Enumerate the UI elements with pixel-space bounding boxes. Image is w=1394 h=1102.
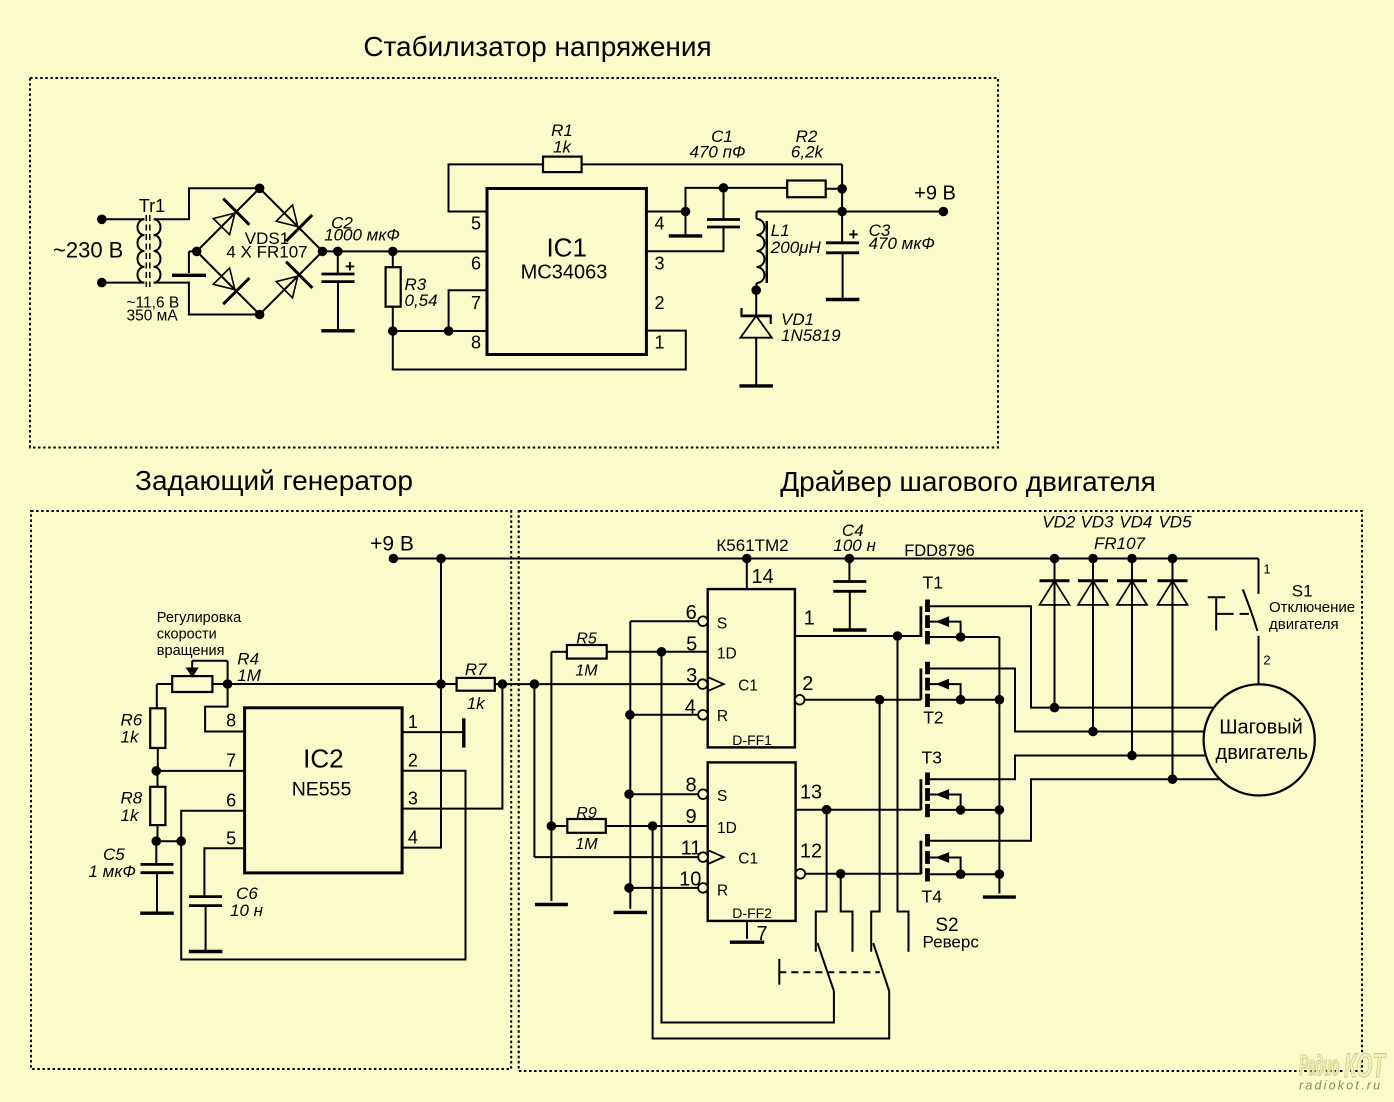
wire L1 top / +9V	[757, 211, 944, 213]
wire source column	[998, 637, 1000, 894]
switch S2 contact T2net	[871, 700, 879, 952]
node R9 left	[547, 821, 557, 831]
watermark РадиоКОТ	[1299, 1047, 1387, 1085]
svg-text:+9 В: +9 В	[914, 183, 956, 205]
capacitor C4	[848, 559, 850, 582]
capacitor C3	[841, 212, 843, 243]
svg-text:S: S	[717, 616, 727, 633]
pin 9 wire (1D)	[606, 825, 708, 827]
diode VD5	[1168, 554, 1178, 564]
wire +9V drop to R7 rail	[440, 559, 442, 685]
wire pin7 branch	[449, 290, 487, 331]
terminal +9V oscillator	[389, 554, 399, 564]
wire R4 to R7	[212, 683, 456, 685]
node T2 body	[956, 695, 966, 705]
capacitor C6	[189, 895, 222, 898]
svg-text:1D: 1D	[717, 646, 737, 663]
pin 11 bubble	[698, 852, 708, 862]
ground S/R chain	[614, 911, 647, 914]
svg-text:1k: 1k	[121, 727, 140, 746]
wire pin4 to rail	[402, 684, 441, 848]
svg-text:1N5819: 1N5819	[781, 326, 841, 345]
wire +9V rail	[393, 558, 1258, 560]
svg-text:100 н: 100 н	[833, 536, 876, 555]
diode VD3	[1088, 554, 1098, 564]
svg-text:Драйвер шагового двигателя: Драйвер шагового двигателя	[780, 466, 1156, 497]
svg-text:+: +	[849, 225, 859, 244]
svg-text:+9 В: +9 В	[370, 532, 414, 555]
svg-text:К561ТМ2: К561ТМ2	[716, 536, 788, 555]
svg-text:VD5: VD5	[1158, 512, 1192, 531]
resistor R6	[156, 684, 158, 708]
wire R3 to IC1 pin8	[393, 330, 487, 332]
wire R7 to FF1 clock	[495, 683, 698, 685]
svg-text:200μH: 200μH	[770, 238, 822, 257]
svg-text:1M: 1M	[237, 666, 261, 685]
node C5 top	[152, 836, 162, 846]
transistor T4	[920, 841, 923, 875]
wire secondary top to bridge	[154, 188, 260, 219]
capacitor C5	[155, 841, 157, 864]
svg-text:3: 3	[655, 254, 665, 274]
node R6/R8/pin7	[152, 766, 162, 776]
switch S2 link	[778, 959, 780, 985]
capacitor C2	[337, 251, 339, 274]
svg-text:radiokot.ru: radiokot.ru	[1299, 1079, 1382, 1093]
node pin14	[742, 554, 752, 564]
svg-text:Реверс: Реверс	[923, 932, 980, 951]
svg-text:1D: 1D	[717, 820, 737, 837]
diode VD1 Schottky	[755, 290, 757, 316]
svg-text:2: 2	[802, 673, 813, 695]
node bridge right	[318, 247, 328, 257]
node C4 top	[845, 554, 855, 564]
svg-text:вращения: вращения	[157, 643, 225, 659]
resistor R5	[567, 645, 607, 659]
switch S1 blade	[1243, 589, 1258, 631]
node R3 bottom	[388, 326, 398, 336]
pin 2 wire (Qbar)	[805, 699, 921, 701]
pin 8 wire (S)	[629, 793, 698, 795]
wire pin1 + ground bar	[402, 731, 464, 733]
node R3 top	[388, 247, 398, 257]
flip-flop D-FF2 box	[708, 762, 796, 921]
svg-text:S1: S1	[1292, 581, 1313, 600]
svg-text:R7: R7	[465, 660, 487, 679]
switch S2 contact T1net	[898, 636, 909, 952]
node T2 gate net	[875, 695, 885, 705]
pin 12 wire (Qbar)	[805, 873, 921, 875]
wire +9V vertical	[841, 164, 843, 211]
node pin3/R7	[498, 679, 508, 689]
svg-text:+: +	[345, 257, 355, 276]
svg-text:двигателя: двигателя	[1269, 616, 1339, 633]
svg-text:2: 2	[408, 750, 418, 770]
wire C5 junction	[156, 840, 181, 842]
wire T4 drain	[930, 779, 1220, 841]
wire pin3 to R7 right	[402, 684, 502, 809]
terminal +9V	[939, 207, 949, 217]
svg-text:Шаговый: Шаговый	[1219, 717, 1303, 739]
svg-text:4: 4	[685, 697, 696, 719]
wire pin6 IC2	[181, 811, 244, 842]
bridge diode upper-right	[276, 205, 298, 227]
wire secondary bottom to bridge	[154, 283, 260, 315]
wire pin2 bottom loop	[181, 771, 465, 960]
svg-text:1M: 1M	[575, 836, 598, 853]
wire S2 pole2 feedback	[653, 826, 890, 1039]
svg-text:6,2k: 6,2k	[791, 143, 825, 162]
wire bridge to IC1 pin6	[323, 250, 488, 252]
pin 13 wire (Q)	[796, 809, 921, 811]
svg-text:T4: T4	[922, 887, 943, 907]
svg-text:10 н: 10 н	[230, 901, 264, 920]
svg-text:3: 3	[408, 788, 418, 808]
wire pin4 stub	[646, 211, 685, 213]
node T1 gate net	[893, 631, 903, 641]
capacitor C1	[723, 188, 725, 220]
svg-text:C1: C1	[738, 851, 758, 868]
wire T2 drain	[930, 669, 1204, 732]
wire T4 source	[930, 873, 1000, 875]
bridge diode upper-left	[213, 213, 235, 235]
svg-text:1k: 1k	[467, 694, 486, 713]
wire T3 drain	[930, 756, 1206, 780]
svg-text:двигатель: двигатель	[1216, 742, 1309, 764]
svg-text:8: 8	[685, 774, 696, 796]
wire T1 source	[930, 636, 1000, 638]
wire T2 source	[930, 699, 1000, 701]
svg-text:T2: T2	[923, 707, 943, 727]
stepper motor circle	[1204, 684, 1315, 795]
switch S2 blade pole2	[873, 943, 889, 991]
node T4 body	[956, 869, 966, 879]
wire rail corner to S1	[1258, 559, 1260, 594]
svg-text:5: 5	[226, 828, 236, 848]
pin 11 chevron	[708, 850, 724, 864]
svg-text:8: 8	[471, 333, 481, 353]
svg-text:350 мА: 350 мА	[127, 307, 179, 324]
svg-text:скорости: скорости	[157, 627, 217, 643]
node pin4	[681, 207, 691, 217]
transistor T1	[920, 606, 923, 637]
svg-text:1: 1	[408, 712, 418, 732]
wire S2 pole1 feedback	[662, 652, 834, 1023]
svg-text:VD2: VD2	[1042, 512, 1076, 531]
ground R5/R9	[535, 903, 568, 906]
wire S/R chain	[629, 621, 631, 909]
pin 4 wire (R)	[630, 714, 698, 716]
svg-text:R8: R8	[121, 788, 143, 807]
node T2 source	[995, 695, 1005, 705]
node R FF2	[624, 883, 634, 893]
node VD1 top	[751, 285, 761, 295]
svg-text:6: 6	[686, 602, 697, 624]
svg-text:Радио: Радио	[1299, 1050, 1339, 1082]
svg-text:1: 1	[655, 333, 665, 353]
svg-text:9: 9	[685, 806, 696, 828]
ground at pin4	[685, 212, 687, 236]
svg-text:5: 5	[686, 634, 697, 656]
svg-text:5: 5	[471, 214, 481, 234]
diode VD4	[1127, 554, 1137, 564]
node clock net	[530, 679, 540, 689]
svg-text:14: 14	[752, 566, 774, 588]
svg-text:~230 В: ~230 В	[53, 238, 123, 263]
svg-text:Задающий генератор: Задающий генератор	[135, 465, 413, 496]
svg-text:6: 6	[226, 790, 236, 810]
svg-text:470 пФ: 470 пФ	[690, 143, 746, 162]
svg-text:8: 8	[226, 711, 236, 731]
transformer Tr1	[138, 215, 161, 287]
wire R1 loop left	[449, 164, 544, 211]
pin 10 wire (R)	[629, 887, 698, 889]
ground at bridge minus	[189, 250, 197, 252]
wire R5/R9 common	[550, 652, 552, 901]
node 1D FF1	[657, 647, 667, 657]
resistor R3	[392, 251, 394, 267]
pin 4 bubble	[698, 710, 708, 720]
wire T3 source	[930, 809, 1000, 811]
op-amp IC1 box	[487, 189, 646, 355]
wire clock vertical	[533, 684, 535, 857]
svg-text:7: 7	[226, 751, 236, 771]
pin 6 wire (S)	[630, 620, 698, 622]
node R FF1	[625, 710, 635, 720]
svg-text:T1: T1	[923, 572, 943, 592]
wire pin1 bypass	[393, 331, 686, 370]
svg-text:FR107: FR107	[1094, 534, 1146, 553]
pin 1 wire (Q)	[795, 635, 921, 637]
svg-text:VD3: VD3	[1080, 512, 1114, 531]
svg-text:Отключение: Отключение	[1269, 599, 1355, 616]
svg-text:D-FF2: D-FF2	[732, 905, 772, 921]
svg-text:2: 2	[1263, 653, 1270, 668]
svg-text:0,54: 0,54	[405, 291, 438, 310]
svg-text:470 мкФ: 470 мкФ	[869, 234, 935, 253]
pin 6 bubble	[698, 616, 708, 626]
svg-text:6: 6	[471, 254, 481, 274]
svg-text:1: 1	[804, 608, 815, 630]
svg-text:1 мкФ: 1 мкФ	[89, 862, 136, 881]
pin 3 bubble	[698, 679, 708, 689]
svg-text:VD4: VD4	[1119, 512, 1152, 531]
node 1D FF2	[648, 821, 658, 831]
dashed border: stepper driver block	[519, 511, 1362, 1071]
resistor R2	[787, 181, 826, 198]
diode VD2	[1050, 554, 1060, 564]
node C2 junction	[333, 247, 343, 257]
potentiometer R4	[172, 676, 212, 692]
wire pin5 IC2	[204, 848, 244, 896]
svg-text:12: 12	[800, 841, 822, 863]
svg-text:FDD8796: FDD8796	[904, 542, 975, 560]
switch S2 contact 12	[841, 874, 853, 952]
bridge rectifier VDS1 diamond	[197, 188, 323, 314]
node C1 top	[719, 183, 729, 193]
pin 2 bubble	[795, 695, 805, 705]
svg-text:4 X FR107: 4 X FR107	[226, 243, 307, 262]
node bridge top	[255, 184, 265, 194]
resistor R7	[457, 678, 495, 691]
node pin7 branch	[444, 326, 454, 336]
svg-text:1000 мкФ: 1000 мкФ	[324, 226, 400, 245]
switch S2 blade pole1	[818, 943, 834, 991]
node T4 source	[995, 869, 1005, 879]
svg-text:11: 11	[681, 838, 702, 860]
pin 5 wire (1D)	[607, 651, 708, 653]
switch S1 button symbol	[1208, 596, 1226, 598]
bridge diode lower-left	[213, 268, 235, 290]
svg-text:4: 4	[408, 827, 418, 847]
transistor T3	[920, 779, 923, 810]
node T4 gate net	[836, 869, 846, 879]
pin 12 bubble	[796, 869, 806, 879]
wire S1 to motor	[1258, 636, 1260, 685]
node T3 body	[956, 805, 966, 815]
svg-text:MC34063: MC34063	[521, 261, 608, 283]
node bridge bottom	[255, 310, 265, 320]
wire R2 right	[826, 188, 842, 190]
svg-text:3: 3	[686, 665, 697, 687]
svg-text:Tr1: Tr1	[139, 196, 165, 216]
svg-text:Стабилизатор напряжения: Стабилизатор напряжения	[363, 31, 711, 62]
node +9V	[837, 207, 847, 217]
svg-text:4: 4	[655, 214, 665, 234]
resistor R8	[157, 771, 159, 787]
resistor R9	[567, 819, 606, 833]
ground source column	[983, 895, 1016, 898]
svg-text:S: S	[717, 788, 727, 805]
svg-text:C1: C1	[738, 677, 758, 694]
dashed border: master oscillator block	[31, 511, 511, 1069]
node pin6 branch	[176, 836, 186, 846]
inductor L1	[756, 212, 758, 220]
bridge diode lower-right	[276, 276, 298, 298]
pin 3 chevron	[708, 677, 724, 691]
svg-text:R9: R9	[576, 805, 597, 822]
pin 10 bubble	[698, 883, 708, 893]
wire pin7 IC2	[156, 770, 244, 772]
resistor R1	[543, 157, 582, 173]
flip-flop D-FF1 box	[708, 589, 795, 747]
svg-text:R5: R5	[576, 631, 597, 648]
svg-text:R: R	[717, 708, 728, 725]
svg-text:NE555: NE555	[292, 778, 352, 800]
svg-text:1k: 1k	[121, 806, 140, 825]
node bridge left	[192, 247, 202, 257]
pin 14 stub	[746, 559, 748, 590]
pin 7 stub + ground	[746, 921, 748, 939]
svg-text:IC1: IC1	[546, 233, 586, 263]
svg-text:7: 7	[471, 293, 481, 313]
terminal ~230V top	[97, 215, 107, 225]
node R2 right	[837, 184, 847, 194]
svg-text:IC2: IC2	[303, 744, 343, 774]
switch S2 contact 13	[816, 810, 827, 952]
node T3 source	[995, 805, 1005, 815]
node R4 wiper	[223, 679, 233, 689]
node rail/R7 branch	[436, 554, 446, 564]
terminal ~230V bottom	[97, 278, 107, 288]
node S FF2	[624, 789, 634, 799]
transistor T2	[920, 669, 923, 700]
svg-text:D-FF1: D-FF1	[732, 732, 772, 748]
wire pin8 IC2	[205, 684, 245, 732]
svg-text:2: 2	[655, 293, 665, 313]
node pin4/R7 left	[436, 679, 446, 689]
wire FF2 clock	[534, 856, 698, 858]
pin 8 bubble	[698, 789, 708, 799]
svg-text:1M: 1M	[575, 663, 598, 680]
svg-text:1k: 1k	[553, 138, 572, 157]
svg-text:1: 1	[1263, 562, 1270, 577]
svg-text:Регулировка: Регулировка	[157, 610, 242, 626]
node T1 body	[956, 632, 966, 642]
svg-text:R: R	[717, 883, 728, 900]
svg-text:10: 10	[679, 869, 701, 891]
svg-text:T3: T3	[922, 748, 942, 768]
svg-text:7: 7	[757, 923, 768, 945]
wire T1 drain	[930, 606, 1214, 707]
dashed border: voltage stabilizer block	[30, 78, 998, 448]
timer IC2 box	[245, 708, 403, 873]
wire pin4 up to C1/R2	[686, 188, 788, 212]
wire R1 to +9V corner	[582, 163, 843, 165]
node T3 gate net	[822, 805, 832, 815]
svg-text:13: 13	[800, 781, 822, 803]
